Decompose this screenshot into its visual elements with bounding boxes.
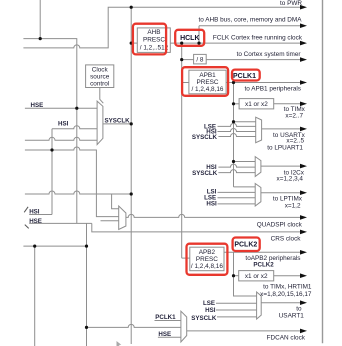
svg-text:/ 1,2,4,8,16: / 1,2,4,8,16: [191, 263, 223, 270]
svg-text:HSI: HSI: [58, 120, 69, 127]
svg-text:x=1,8,20,15,16,17: x=1,8,20,15,16,17: [260, 291, 312, 298]
svg-text:SYSCLK: SYSCLK: [191, 315, 217, 322]
svg-text:PRESC: PRESC: [196, 256, 218, 263]
svg-text:/ 8: / 8: [196, 57, 204, 64]
svg-text:x=2..5: x=2..5: [286, 138, 304, 145]
svg-text:PRESC: PRESC: [143, 37, 165, 44]
svg-text:x=1,2: x=1,2: [285, 203, 301, 210]
svg-text:FDCAN clock: FDCAN clock: [267, 334, 306, 341]
svg-text:PCLK2: PCLK2: [234, 241, 257, 248]
svg-text:FCLK Cortex free running clock: FCLK Cortex free running clock: [213, 34, 303, 41]
svg-text:APB2: APB2: [199, 249, 216, 256]
svg-text:PCLK2: PCLK2: [253, 262, 274, 269]
svg-text:PRESC: PRESC: [196, 79, 218, 86]
svg-text:control: control: [90, 80, 109, 87]
svg-text:Clock: Clock: [92, 66, 109, 73]
svg-text:to TIMx, HRTIM1: to TIMx, HRTIM1: [263, 283, 312, 290]
svg-text:to LPUART1: to LPUART1: [267, 145, 303, 152]
svg-text:QUADSPI clock: QUADSPI clock: [257, 221, 303, 228]
svg-text:x=1,2,3,4: x=1,2,3,4: [277, 176, 304, 183]
svg-text:USART1: USART1: [279, 312, 305, 319]
svg-text:x1 or x2: x1 or x2: [245, 101, 268, 108]
svg-text:x1 or x2: x1 or x2: [245, 273, 268, 280]
svg-text:/ 1,2,..512: / 1,2,..512: [140, 44, 169, 51]
svg-text:to APB1 peripherals: to APB1 peripherals: [245, 85, 302, 92]
svg-text:AHB: AHB: [147, 29, 160, 36]
svg-text:SYSCLK: SYSCLK: [192, 134, 218, 141]
svg-text:x=2..7: x=2..7: [285, 113, 303, 120]
svg-text:to PWR: to PWR: [280, 0, 302, 7]
svg-text:to LPTIMx: to LPTIMx: [273, 195, 303, 202]
svg-text:HSI: HSI: [206, 201, 217, 208]
svg-text:CRS clock: CRS clock: [271, 235, 302, 242]
svg-text:PCLK1: PCLK1: [233, 73, 256, 80]
svg-text:HSI: HSI: [205, 307, 216, 314]
svg-text:source: source: [90, 73, 110, 80]
svg-text:HCLK: HCLK: [180, 35, 199, 42]
svg-text:SYSCLK: SYSCLK: [192, 170, 218, 177]
svg-text:to Cortex system timer: to Cortex system timer: [237, 51, 302, 58]
svg-text:/ 1,2,4,8,16: / 1,2,4,8,16: [192, 86, 224, 93]
svg-text:APB1: APB1: [199, 72, 216, 79]
svg-text:to AHB bus, core, memory and D: to AHB bus, core, memory and DMA: [199, 16, 303, 23]
